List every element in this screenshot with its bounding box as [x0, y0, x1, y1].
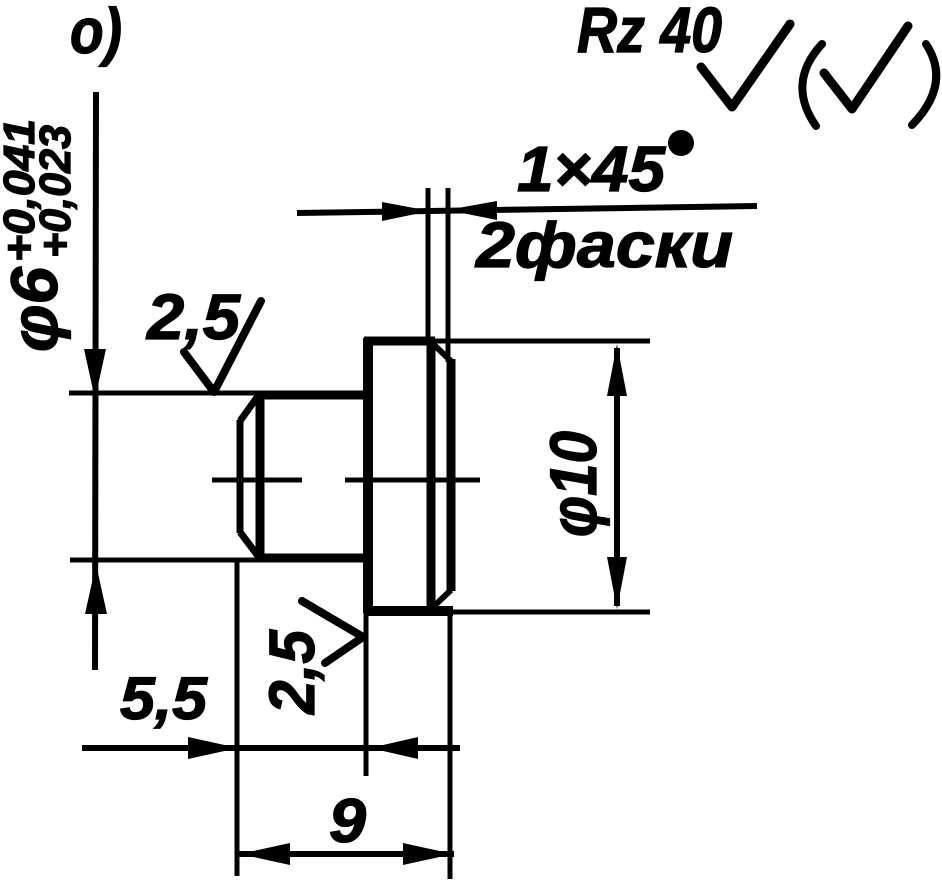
- part outline: big cylinder left face: [363, 338, 373, 613]
- dia6 dimension text rotated: [0, 119, 80, 352]
- part outline: chamfer slant top right: [431, 342, 451, 361]
- part outline: chamfer slant bottom right: [431, 590, 451, 609]
- extension line dia10 top: [435, 339, 650, 344]
- part outline: small cylinder top: [256, 391, 370, 400]
- svg-text:2,5: 2,5: [256, 629, 328, 715]
- svg-text:2,5: 2,5: [146, 281, 242, 353]
- extension line dia6 bottom: [70, 558, 260, 563]
- svg-text:5,5: 5,5: [120, 665, 209, 732]
- arrow left at mid ext: [370, 737, 418, 759]
- dia10 dimension line with arrows: [614, 348, 620, 606]
- dimension line 1x45: [297, 206, 757, 213]
- arrowhead 1x45 pointing right: [382, 202, 430, 221]
- extension line dia6 top: [69, 391, 260, 396]
- arrowhead dia6 pointing down: [84, 349, 106, 399]
- open paren: [802, 44, 822, 126]
- svg-text:1×45: 1×45: [517, 133, 666, 205]
- roughness check mark small: [824, 26, 908, 109]
- part outline: big cylinder chamfer edge: [427, 339, 436, 612]
- degree dot: [668, 130, 694, 156]
- dimension line 5,5: [82, 745, 460, 751]
- svg-text:9: 9: [329, 787, 367, 856]
- part outline: small cylinder end face: [237, 420, 244, 533]
- part outline: small cylinder bottom: [256, 554, 370, 563]
- part outline: big cylinder bottom: [364, 606, 453, 616]
- extension line big cyl right face down: [448, 612, 453, 879]
- extension line chamfer right: [446, 188, 451, 362]
- roughness 2,5 rotated check mark: [302, 601, 363, 663]
- dimension line 9 with arrows: [239, 851, 454, 857]
- arrow right at left ext: [188, 737, 238, 759]
- svg-text:φ10: φ10: [536, 431, 610, 537]
- close paren: [912, 44, 936, 125]
- extension line left end face down: [235, 558, 240, 876]
- svg-text:+0,023: +0,023: [31, 125, 80, 258]
- part outline: chamfer slant top left: [240, 396, 258, 421]
- roughness check mark large: [701, 24, 790, 107]
- part outline: big cylinder right face: [447, 359, 456, 591]
- dia6 dimension line: [95, 92, 96, 670]
- svg-text:2фаски: 2фаски: [475, 209, 733, 281]
- arrowhead dia6 pointing up: [85, 564, 107, 614]
- part outline: chamfer slant bottom left: [240, 532, 258, 556]
- svg-text:Rz 40: Rz 40: [577, 0, 722, 66]
- part outline: small cylinder chamfer edge: [256, 393, 265, 560]
- svg-text:φ6: φ6: [0, 266, 71, 352]
- part outline: big cylinder top: [364, 337, 435, 346]
- extension line dia10 bottom: [453, 610, 650, 615]
- svg-text:о): о): [70, 0, 122, 67]
- centerline axis: [212, 478, 302, 483]
- roughness 2,5 top check mark: [184, 301, 261, 392]
- extension line chamfer left: [426, 188, 431, 345]
- arrowhead 1x45 pointing left: [447, 201, 497, 220]
- extension line big cyl left face down: [364, 613, 369, 776]
